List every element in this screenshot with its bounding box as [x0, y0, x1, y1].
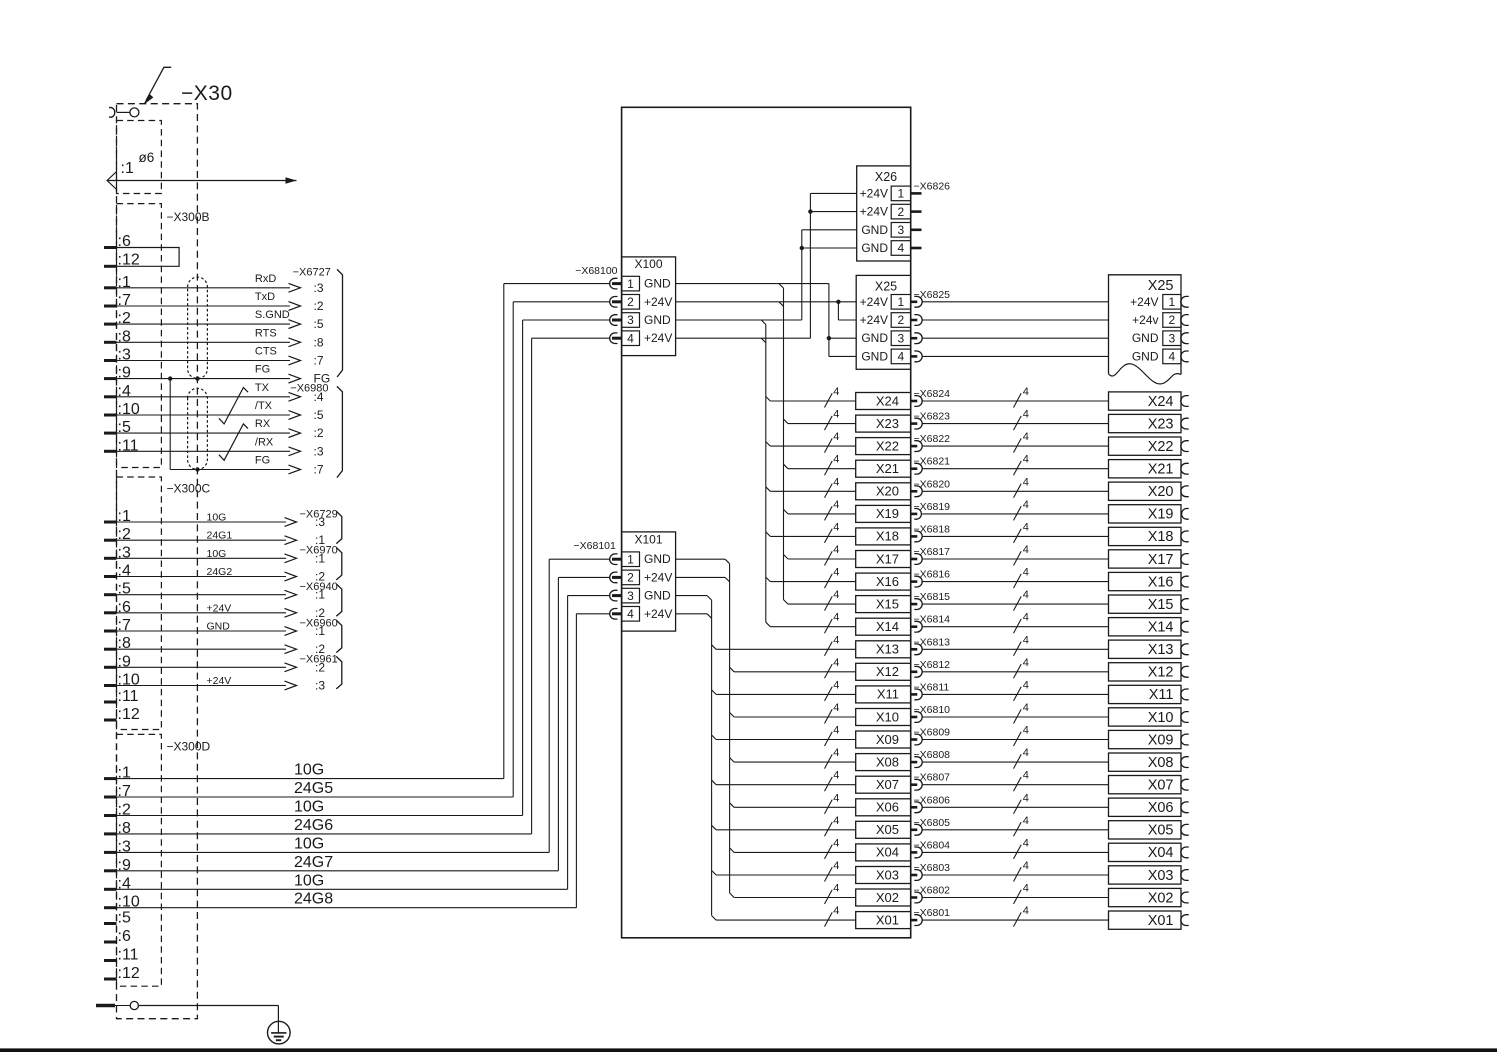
wire X23 to right connector (4-wire bundle)	[922, 423, 1108, 425]
svg-text:X02: X02	[876, 890, 899, 905]
svg-text:X26: X26	[875, 170, 897, 184]
shield terminal socket arc at top of -X30	[109, 108, 115, 118]
right connector X24 socket arc	[1181, 396, 1189, 407]
junction dot +24V to X26 pin2	[808, 209, 812, 213]
svg-text::8: :8	[314, 335, 324, 349]
pin :8 of -X300C wire to :2	[104, 648, 117, 651]
svg-text:FG: FG	[255, 455, 270, 467]
svg-text:X01: X01	[876, 912, 899, 927]
svg-text:RTS: RTS	[255, 327, 277, 339]
internal port box X06	[856, 799, 911, 816]
svg-text:1: 1	[627, 277, 634, 291]
connector -X30 outer dashed body	[117, 104, 198, 1019]
svg-text:X09: X09	[876, 732, 899, 747]
svg-text:X14: X14	[1148, 620, 1174, 636]
bus tap wire to X14 (4-wire bundle)	[766, 622, 771, 627]
svg-text:GND: GND	[644, 552, 671, 566]
svg-text:+24V: +24V	[860, 186, 888, 200]
svg-text:+24V: +24V	[207, 602, 232, 614]
svg-text:4: 4	[833, 837, 839, 849]
bus tap wire to X06 (4-wire bundle)	[730, 803, 735, 808]
internal port box X19	[856, 505, 911, 522]
port X13 pin and socket arc -X6813	[911, 648, 918, 651]
internal port box X15	[856, 596, 911, 613]
svg-text:−X6811: −X6811	[914, 681, 950, 693]
bus tap wire to X19 (4-wire bundle)	[784, 509, 789, 514]
svg-text:RxD: RxD	[255, 273, 276, 285]
svg-text:X06: X06	[1148, 800, 1174, 816]
pin :1 of -X300D wire 10G	[104, 777, 117, 780]
svg-text:4: 4	[833, 476, 839, 488]
svg-text::5: :5	[314, 408, 324, 422]
bus B vertical (X100 pins 3-4 bundle)	[765, 325, 767, 623]
wire vertical 10G riser x=522.6	[522, 320, 524, 816]
port X22 pin and socket arc -X6822	[911, 445, 918, 448]
bus C vertical (X101 pins 1-2 bundle)	[729, 564, 731, 893]
svg-text:24G2: 24G2	[207, 566, 233, 578]
svg-text:4: 4	[1023, 589, 1029, 601]
svg-text:X01: X01	[1148, 913, 1174, 929]
right connector box X17	[1109, 550, 1182, 568]
svg-text:X03: X03	[876, 867, 899, 882]
svg-text:4: 4	[1023, 409, 1029, 421]
bus tap wire to X15 (4-wire bundle)	[784, 600, 789, 605]
wire X14 to right connector (4-wire bundle)	[922, 626, 1108, 628]
port X10 pin and socket arc -X6810	[911, 716, 918, 719]
bus tap wire to X17 (4-wire bundle)	[784, 555, 789, 560]
svg-text:−X68100: −X68100	[575, 265, 617, 277]
right connector box X02	[1109, 888, 1182, 906]
svg-text:1: 1	[1169, 295, 1176, 309]
svg-text:−X6805: −X6805	[914, 817, 951, 829]
bus tap wire to X16 (4-wire bundle)	[766, 577, 771, 582]
pin :4 of -X300C wire to :2	[104, 575, 117, 578]
X101 pin 2 wire left	[558, 576, 609, 578]
X101 pin 1 wire left	[549, 558, 609, 560]
X101 pin 4 socket arc	[610, 609, 618, 620]
right X25 pin 1 box	[1163, 295, 1181, 310]
bus tap wire to X02 (4-wire bundle)	[730, 893, 735, 898]
wire X100 pin1 GND to X25 GND pins	[676, 283, 829, 285]
wire vertical 24G7 riser x=558.4	[557, 577, 559, 870]
svg-text:X14: X14	[876, 619, 899, 634]
svg-text:−X6812: −X6812	[914, 659, 951, 671]
wire X12 to right connector (4-wire bundle)	[922, 671, 1108, 673]
svg-text:4: 4	[1023, 883, 1029, 895]
svg-text::7: :7	[314, 463, 324, 477]
wire X11 to right connector (4-wire bundle)	[922, 693, 1108, 695]
internal port box X09	[856, 731, 911, 748]
wire X101 pin3 to bus D	[676, 595, 708, 597]
X26 pin 1 box	[891, 186, 911, 201]
right connector box X15	[1109, 595, 1182, 613]
X25 pin 3 wire to right X25	[922, 337, 1108, 339]
svg-text:2: 2	[898, 205, 905, 219]
port X20 pin and socket arc -X6820	[911, 490, 918, 493]
svg-text:−X6821: −X6821	[914, 456, 951, 468]
X101 pin 3 socket arc	[610, 590, 618, 601]
right connector X02 socket arc	[1181, 892, 1189, 903]
svg-text:−X6961: −X6961	[300, 654, 338, 666]
right connector box X09	[1109, 730, 1182, 748]
svg-text:4: 4	[833, 860, 839, 872]
right connector X20 socket arc	[1181, 486, 1189, 497]
svg-text::1: :1	[121, 160, 134, 177]
svg-text:GND: GND	[861, 223, 888, 237]
svg-text:4: 4	[1023, 499, 1029, 511]
bus tap wire to X22 (4-wire bundle)	[766, 442, 771, 447]
right connector X21 socket arc	[1181, 463, 1189, 474]
svg-text:4: 4	[1023, 770, 1029, 782]
X26 pin 3 box	[891, 223, 911, 238]
port X23 pin and socket arc -X6823	[911, 422, 918, 425]
bus tap wire to X01 (4-wire bundle)	[712, 916, 717, 921]
svg-text:X12: X12	[876, 664, 899, 679]
pin :2 of -X300C wire to :1	[104, 539, 117, 542]
svg-text:−X300B: −X300B	[167, 210, 210, 224]
svg-text:24G7: 24G7	[294, 854, 333, 871]
svg-text:4: 4	[1023, 679, 1029, 691]
internal port box X20	[856, 483, 911, 500]
right connector X09 socket arc	[1181, 734, 1189, 745]
pin :12 tick of -X300C	[104, 719, 117, 722]
internal port box X18	[856, 528, 911, 545]
svg-text::2: :2	[314, 299, 324, 313]
svg-text:4: 4	[1023, 905, 1029, 917]
svg-text:4: 4	[833, 815, 839, 827]
X100 pin 2 socket arc	[610, 297, 618, 308]
right connector box X08	[1109, 753, 1182, 771]
X26 pin 2 box	[891, 204, 911, 219]
pin :3 of -X300B wire CTS to -X6727 :7	[104, 359, 117, 362]
bracket for -X6980 group	[337, 386, 343, 477]
svg-text:X15: X15	[876, 596, 899, 611]
svg-text:X05: X05	[1148, 823, 1174, 839]
pin :2 of -X300B wire S.GND to -X6727 :5	[104, 323, 117, 326]
wire X20 to right connector (4-wire bundle)	[922, 490, 1108, 492]
X101 pin 1 socket arc	[610, 554, 618, 565]
sub-connector -X300C dashed box	[117, 477, 162, 730]
svg-text:4: 4	[1023, 634, 1029, 646]
bus tap wire to X03 (4-wire bundle)	[712, 871, 717, 876]
pin :5 tick of -X300D	[104, 922, 117, 925]
wire FG to -X6980 :7	[170, 469, 290, 471]
wire vertical 10G riser x=549.2	[548, 559, 550, 852]
bus A entry from X100 pin1	[779, 284, 784, 289]
right connector X07 socket arc	[1181, 779, 1189, 790]
internal port box X12	[856, 663, 911, 680]
junction dot +24V branch X25 pin2	[836, 300, 840, 304]
pin :6 tick	[104, 246, 117, 249]
right connector box X23	[1109, 414, 1182, 432]
svg-text:24G8: 24G8	[294, 891, 333, 908]
wire X26 pin3 GND stub	[802, 229, 857, 231]
pin :10 of -X300D wire 24G8	[104, 906, 117, 909]
right connector X08 socket arc	[1181, 757, 1189, 768]
svg-text:4: 4	[833, 499, 839, 511]
svg-text:3: 3	[1169, 331, 1176, 345]
svg-text:4: 4	[833, 702, 839, 714]
X25 pin 2 plug pin and socket arc	[911, 319, 918, 322]
svg-text:4: 4	[833, 589, 839, 601]
svg-text:4: 4	[1023, 702, 1029, 714]
svg-text:X11: X11	[1149, 687, 1174, 703]
internal port box X22	[856, 438, 911, 455]
svg-text:4: 4	[1169, 350, 1176, 364]
X26 pin 1 stub	[911, 192, 922, 195]
bus D vertical (X101 pins 3-4 bundle)	[711, 600, 713, 915]
svg-text:−X6970: −X6970	[300, 545, 338, 557]
right X25 pin 3 box	[1163, 331, 1181, 346]
svg-text:/RX: /RX	[255, 436, 274, 448]
right connector X14 socket arc	[1181, 621, 1189, 632]
ground pin tick	[96, 1004, 115, 1007]
svg-text:+24V: +24V	[860, 205, 888, 219]
svg-text:X04: X04	[1148, 845, 1174, 861]
right connector box X04	[1109, 843, 1182, 861]
wire X09 to right connector (4-wire bundle)	[922, 739, 1108, 741]
wire vertical 10G riser x=503.8	[503, 284, 505, 779]
right connector box X20	[1109, 482, 1182, 500]
X100 pin 1 wire left	[504, 283, 610, 285]
pin :2 of -X300D wire 10G	[104, 814, 117, 817]
pin :4 of -X300D wire 10G	[104, 888, 117, 891]
svg-text:X21: X21	[876, 461, 899, 476]
svg-text::11: :11	[118, 688, 139, 705]
svg-text:GND: GND	[644, 589, 671, 603]
svg-text:X06: X06	[876, 800, 899, 815]
wire RX to -X6980 :2	[104, 432, 117, 435]
svg-text:4: 4	[1023, 747, 1029, 759]
svg-text:X21: X21	[1148, 462, 1174, 478]
bus A entry from X100 pin2	[779, 302, 784, 307]
right X25 pin 3 socket arc	[1181, 333, 1189, 344]
svg-text::6: :6	[118, 928, 131, 945]
internal port box X04	[856, 844, 911, 861]
wire X22 to right connector (4-wire bundle)	[922, 445, 1108, 447]
X100 pin 4 socket arc	[610, 333, 618, 344]
page bottom border line	[0, 1048, 1497, 1052]
svg-text:−X6814: −X6814	[914, 614, 951, 626]
right connector box X10	[1109, 708, 1182, 726]
right X25 pin 4 socket arc	[1181, 351, 1189, 362]
wire X101 pin1 to bus C	[676, 558, 726, 560]
svg-text:4: 4	[833, 679, 839, 691]
port X05 pin and socket arc -X6805	[911, 828, 918, 831]
bus tap wire to X04 (4-wire bundle)	[730, 848, 735, 853]
wire X02 to right connector (4-wire bundle)	[922, 897, 1108, 899]
svg-text:X19: X19	[876, 506, 899, 521]
svg-text:4: 4	[1023, 521, 1029, 533]
port X15 pin and socket arc -X6815	[911, 603, 918, 606]
svg-text:4: 4	[833, 883, 839, 895]
right connector X25 body with torn bottom	[1109, 275, 1182, 375]
svg-text:GND: GND	[1132, 349, 1159, 363]
svg-text::11: :11	[118, 947, 139, 964]
X26 pin 2 stub	[911, 210, 922, 213]
wire GND corner to X25 pin4	[829, 355, 856, 357]
svg-text:FG: FG	[255, 364, 270, 376]
wire X19 to right connector (4-wire bundle)	[922, 513, 1108, 515]
svg-text:X07: X07	[876, 777, 899, 792]
svg-text:X17: X17	[876, 551, 899, 566]
bus tap wire to X08 (4-wire bundle)	[730, 758, 735, 763]
port X14 pin and socket arc -X6814	[911, 625, 918, 628]
svg-text:X18: X18	[876, 529, 899, 544]
svg-text:4: 4	[833, 431, 839, 443]
svg-text:10G: 10G	[294, 835, 324, 852]
port X24 pin and socket arc -X6824	[911, 400, 918, 403]
right connector X10 socket arc	[1181, 712, 1189, 723]
svg-text:4: 4	[1023, 431, 1029, 443]
svg-text:TxD: TxD	[255, 291, 275, 303]
X101 pin 3 box	[622, 588, 640, 603]
svg-text::12: :12	[118, 965, 140, 982]
svg-text::7: :7	[314, 354, 324, 368]
svg-text:4: 4	[1023, 837, 1029, 849]
svg-text:24G5: 24G5	[294, 780, 333, 797]
svg-text:−X6960: −X6960	[300, 617, 338, 629]
svg-text:−X300C: −X300C	[167, 482, 211, 496]
internal port box X01	[856, 912, 911, 929]
right connector X11 socket arc	[1181, 689, 1189, 700]
svg-text:GND: GND	[861, 241, 888, 255]
right connector X01 socket arc	[1181, 915, 1189, 926]
right connector X12 socket arc	[1181, 666, 1189, 677]
wire X26 pin1 +24V stub	[810, 192, 856, 194]
svg-text:1: 1	[898, 187, 905, 201]
svg-text:4: 4	[1023, 454, 1029, 466]
ground terminal circle	[106, 1005, 130, 1007]
svg-text:X20: X20	[876, 484, 899, 499]
pin :9 of -X300C wire to :2	[104, 666, 117, 669]
svg-text:−X6822: −X6822	[914, 433, 951, 445]
pin :8 of -X300B wire RTS to -X6727 :8	[104, 341, 117, 344]
X25 pin 1 box	[891, 295, 911, 310]
bracket for −X6960 group	[336, 620, 342, 653]
svg-text:X13: X13	[876, 642, 899, 657]
X25 pin 2 wire to right X25	[922, 319, 1108, 321]
right connector X06 socket arc	[1181, 802, 1189, 813]
svg-text:+24V: +24V	[860, 295, 888, 309]
port X16 pin and socket arc -X6816	[911, 580, 918, 583]
svg-text:X10: X10	[876, 709, 899, 724]
svg-text:−X6803: −X6803	[914, 862, 951, 874]
svg-text:4: 4	[833, 544, 839, 556]
svg-text:4: 4	[1023, 612, 1029, 624]
svg-text:1: 1	[627, 552, 634, 566]
X100 pin 2 wire left	[513, 301, 609, 303]
svg-text:GND: GND	[861, 331, 888, 345]
wire X13 to right connector (4-wire bundle)	[922, 648, 1108, 650]
wire X07 to right connector (4-wire bundle)	[922, 784, 1108, 786]
svg-text:10G: 10G	[207, 548, 227, 560]
svg-text:4: 4	[833, 657, 839, 669]
X100 pin 4 wire left	[532, 337, 610, 339]
wire X08 to right connector (4-wire bundle)	[922, 761, 1108, 763]
bus tap wire to X20 (4-wire bundle)	[766, 487, 771, 492]
port X07 pin and socket arc -X6807	[911, 783, 918, 786]
pin :3 of -X300D wire 10G	[104, 851, 117, 854]
bracket for −X6970 group	[336, 547, 342, 580]
wire X03 to right connector (4-wire bundle)	[922, 874, 1108, 876]
pin :12 tick	[104, 265, 117, 268]
wire vertical 24G5 riser x=513.2	[512, 302, 514, 797]
bus tap wire to X10 (4-wire bundle)	[730, 713, 735, 718]
X101 pin 3 wire left	[568, 595, 610, 597]
svg-text:3: 3	[898, 223, 905, 237]
X25 pin 3 plug pin and socket arc	[911, 337, 918, 340]
svg-text::5: :5	[118, 910, 131, 927]
svg-text:4: 4	[1023, 725, 1029, 737]
X25 pin 4 box	[891, 349, 911, 364]
FG branch junction on :9 wire	[168, 376, 172, 380]
X100 pin 3 box	[622, 313, 640, 328]
svg-text:CTS: CTS	[255, 346, 277, 358]
svg-text:−X6940: −X6940	[300, 581, 338, 593]
svg-text::12: :12	[118, 706, 140, 723]
right connector box X11	[1109, 685, 1182, 703]
svg-text:−X6816: −X6816	[914, 569, 951, 581]
svg-text:X07: X07	[1148, 778, 1174, 794]
wire vertical 24G6 riser x=531.6	[531, 338, 533, 834]
svg-text:X18: X18	[1148, 529, 1174, 545]
svg-text:4: 4	[833, 634, 839, 646]
bus A vertical (X100 pins 1-2 bundle)	[783, 288, 785, 600]
svg-text:X09: X09	[1148, 732, 1174, 748]
svg-text:+24V: +24V	[644, 331, 672, 345]
svg-text:X13: X13	[1148, 642, 1174, 658]
svg-text::2: :2	[314, 426, 324, 440]
X100 pin 3 socket arc	[610, 315, 618, 326]
svg-text:X16: X16	[876, 574, 899, 589]
right connector box X16	[1109, 572, 1182, 590]
svg-text:GND: GND	[644, 277, 671, 291]
svg-text:/TX: /TX	[255, 400, 273, 412]
svg-text:10G: 10G	[294, 762, 324, 779]
svg-text:X12: X12	[1148, 665, 1174, 681]
X101 pin 4 wire left	[576, 613, 609, 615]
svg-text:+24V: +24V	[644, 607, 672, 621]
port X18 pin and socket arc -X6818	[911, 535, 918, 538]
svg-text:X10: X10	[1148, 710, 1174, 726]
wire X100 pin3 GND to X26 GND pins	[676, 319, 802, 321]
svg-text:GND: GND	[861, 349, 888, 363]
X101 pin 2 box	[622, 570, 640, 585]
wire vertical 10G riser x=567.6	[567, 596, 569, 890]
svg-text:3: 3	[898, 331, 905, 345]
svg-text:1: 1	[898, 295, 905, 309]
internal port box X13	[856, 641, 911, 658]
right connector box X01	[1109, 911, 1182, 929]
wire X04 to right connector (4-wire bundle)	[922, 851, 1108, 853]
internal port box X17	[856, 551, 911, 568]
svg-text:−X6825: −X6825	[914, 289, 951, 301]
wire /TX to -X6980 :5	[104, 414, 117, 417]
connector X101 body	[622, 532, 676, 631]
pin :11 tick of -X300C	[104, 701, 117, 704]
right X25 pin 2 box	[1163, 313, 1181, 328]
internal port box X03	[856, 867, 911, 884]
svg-text:X25: X25	[875, 280, 897, 294]
X26 pin 3 stub	[911, 229, 922, 232]
svg-text:4: 4	[833, 725, 839, 737]
port X01 pin and socket arc -X6801	[911, 919, 918, 922]
module main rectangle	[622, 107, 911, 938]
bus tap wire to X11 (4-wire bundle)	[712, 690, 717, 695]
svg-text:−X6804: −X6804	[914, 839, 951, 851]
bus tap wire to X12 (4-wire bundle)	[730, 667, 735, 672]
